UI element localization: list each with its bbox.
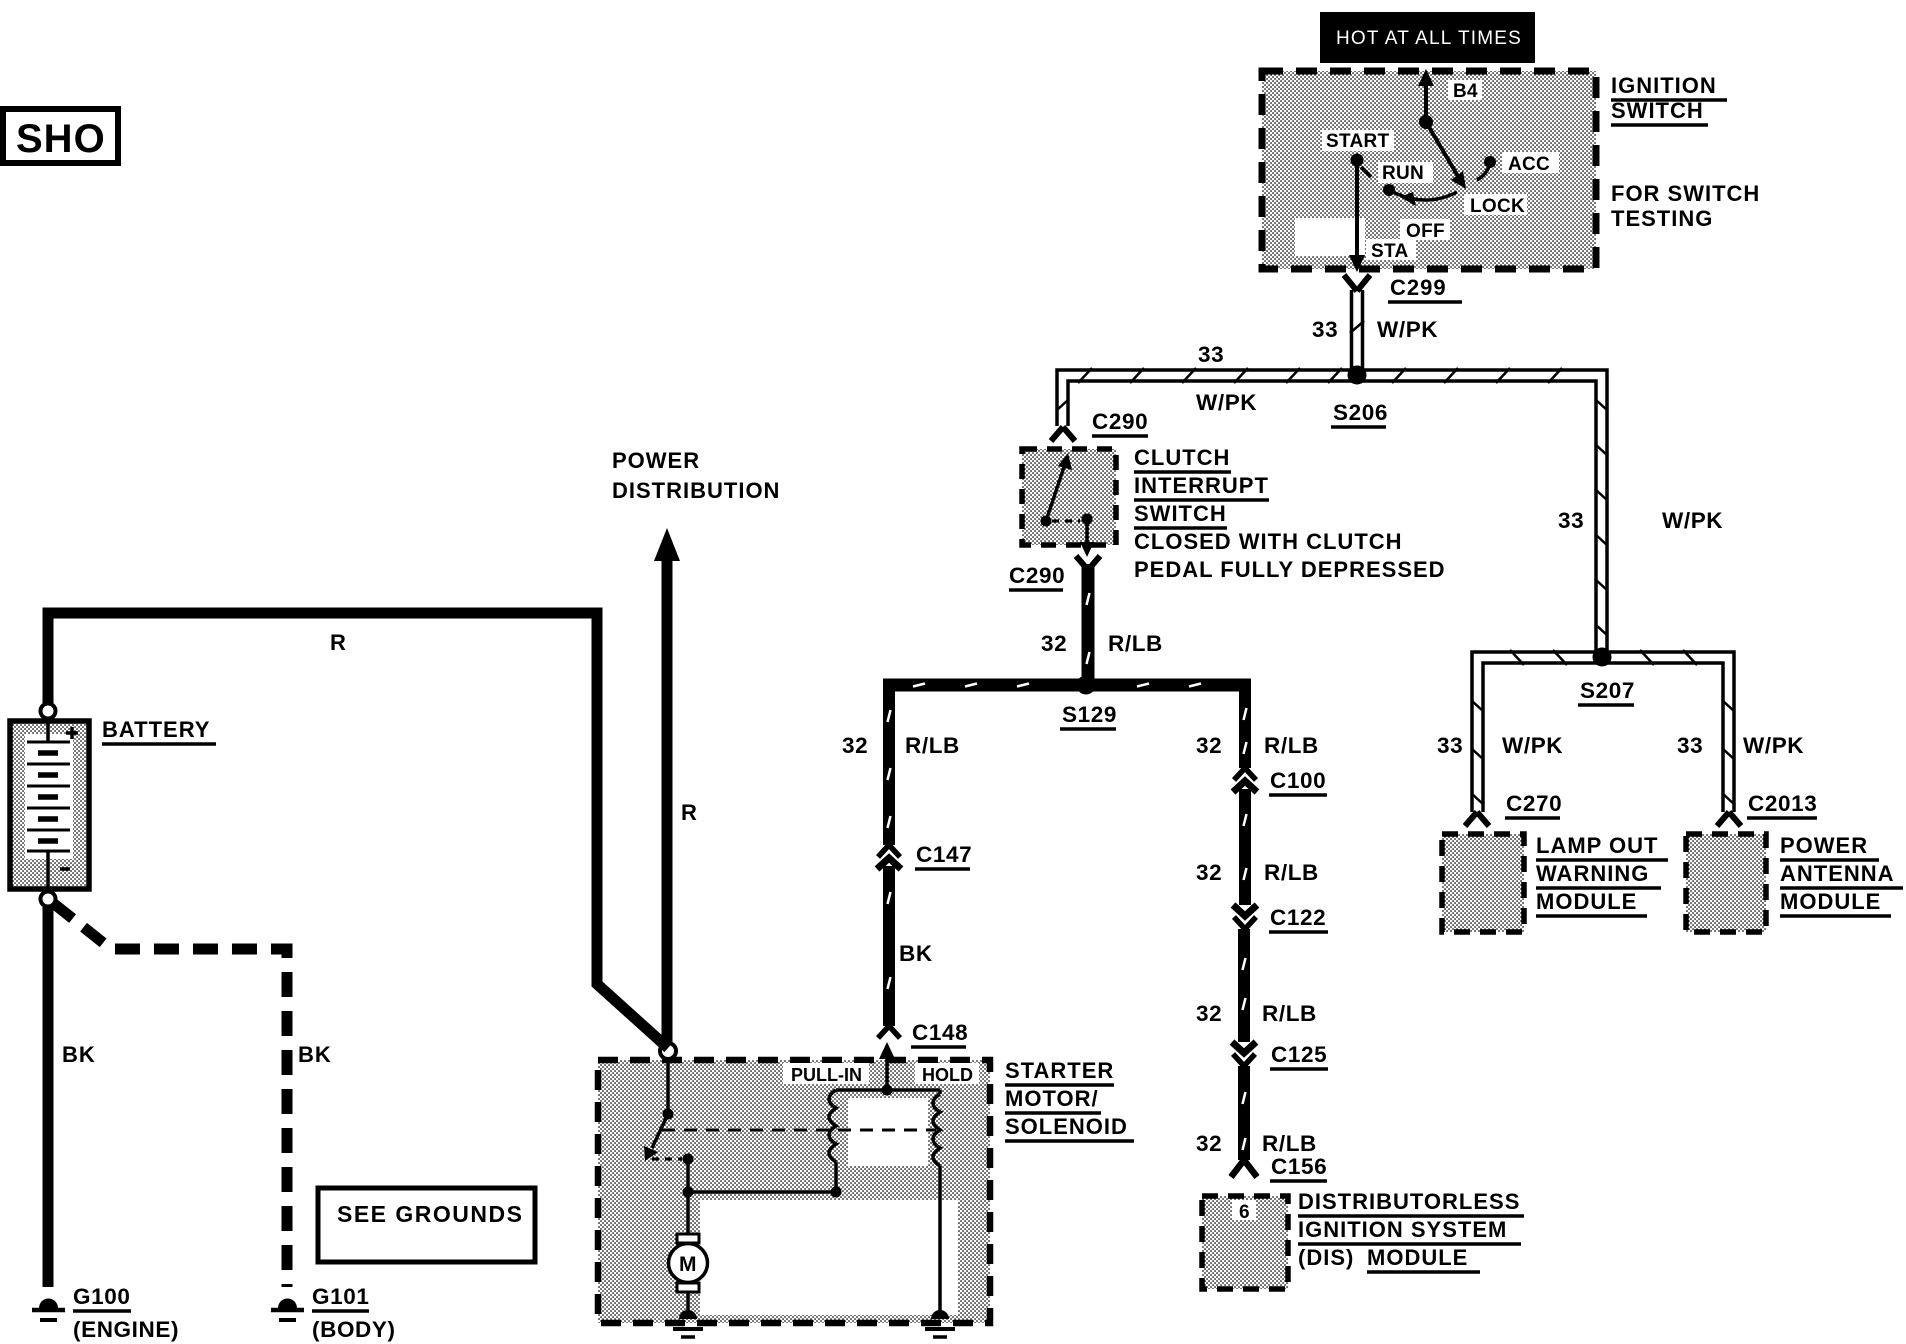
svg-text:HOLD: HOLD bbox=[922, 1065, 973, 1085]
svg-text:BK: BK bbox=[298, 1042, 332, 1067]
svg-text:R/LB: R/LB bbox=[905, 733, 960, 758]
svg-text:33: 33 bbox=[1312, 317, 1338, 342]
svg-text:R: R bbox=[330, 630, 347, 655]
svg-text:(DIS): (DIS) bbox=[1298, 1245, 1354, 1270]
wire 33 W/PK from C299 to S206 bbox=[1312, 290, 1438, 371]
svg-text:33: 33 bbox=[1198, 342, 1224, 367]
svg-text:PEDAL FULLY DEPRESSED: PEDAL FULLY DEPRESSED bbox=[1134, 557, 1446, 582]
svg-text:ACC: ACC bbox=[1508, 154, 1550, 175]
battery bbox=[10, 704, 89, 907]
svg-text:DISTRIBUTORLESS: DISTRIBUTORLESS bbox=[1298, 1189, 1520, 1214]
svg-text:RUN: RUN bbox=[1382, 163, 1424, 184]
svg-text:S206: S206 bbox=[1333, 400, 1388, 425]
starter solenoid battery terminal bbox=[660, 1043, 676, 1059]
hold winding ground bbox=[925, 1310, 955, 1337]
svg-text:SHO: SHO bbox=[16, 117, 106, 161]
svg-text:PULL-IN: PULL-IN bbox=[791, 1065, 862, 1085]
connector C147 bbox=[877, 842, 972, 869]
wire 32 R/LB S129 left branch down to C147 bbox=[842, 679, 960, 845]
svg-text:INTERRUPT: INTERRUPT bbox=[1134, 473, 1269, 498]
wire 33 W/PK S206 to S207 vertical hash marks bbox=[1558, 399, 1723, 636]
svg-text:TESTING: TESTING bbox=[1611, 206, 1713, 231]
connector C100 bbox=[1233, 768, 1327, 795]
svg-text:POWER: POWER bbox=[1780, 833, 1868, 858]
svg-text:IGNITION SYSTEM: IGNITION SYSTEM bbox=[1298, 1217, 1507, 1242]
wire 33 W/PK S206 horizontal run bbox=[1056, 342, 1607, 658]
solenoid feed arrow to C148 bbox=[879, 1042, 895, 1090]
svg-text:R/LB: R/LB bbox=[1264, 860, 1319, 885]
svg-text:C270: C270 bbox=[1506, 791, 1562, 816]
svg-text:W/PK: W/PK bbox=[1377, 317, 1438, 342]
connector C290 (ignition side) bbox=[1051, 409, 1148, 441]
splice S207 bbox=[1437, 648, 1804, 813]
power feed label HOT AT ALL TIMES bbox=[1320, 12, 1535, 63]
svg-text:C299: C299 bbox=[1390, 275, 1447, 300]
ignition switch terminal B4 arrow bbox=[1418, 69, 1478, 129]
svg-text:MODULE: MODULE bbox=[1780, 889, 1881, 914]
svg-text:G101: G101 bbox=[312, 1284, 369, 1309]
svg-text:C2013: C2013 bbox=[1748, 791, 1817, 816]
svg-text:CLOSED WITH CLUTCH: CLOSED WITH CLUTCH bbox=[1134, 529, 1403, 554]
ignition switch blade B4 to LOCK bbox=[1426, 122, 1466, 189]
svg-text:MODULE: MODULE bbox=[1536, 889, 1637, 914]
connector C299 bbox=[1344, 275, 1462, 302]
svg-text:DISTRIBUTION: DISTRIBUTION bbox=[612, 478, 780, 503]
ignition switch STA output arrow bbox=[1349, 160, 1409, 272]
svg-text:M: M bbox=[679, 1253, 697, 1276]
svg-text:32: 32 bbox=[1196, 1001, 1222, 1026]
wire 32 R/LB C125 to C156 bbox=[1196, 1066, 1317, 1160]
svg-text:(ENGINE): (ENGINE) bbox=[73, 1317, 179, 1342]
label POWER DISTRIBUTION bbox=[612, 448, 780, 503]
ground G100 bbox=[32, 1284, 179, 1342]
wire 32 R/LB C100 to C122 bbox=[1196, 789, 1319, 905]
svg-text:IGNITION: IGNITION bbox=[1611, 73, 1717, 98]
wire 32 R/LB clutch switch to S129 bbox=[1041, 564, 1163, 684]
label CLUTCH INTERRUPT SWITCH bbox=[1134, 445, 1446, 582]
svg-text:(BODY): (BODY) bbox=[312, 1317, 396, 1342]
ground G101 bbox=[271, 1284, 396, 1342]
svg-text:C100: C100 bbox=[1270, 768, 1326, 793]
ignition switch contact RUN bbox=[1382, 163, 1424, 196]
svg-text:SOLENOID: SOLENOID bbox=[1005, 1114, 1128, 1139]
label DISTRIBUTORLESS IGNITION SYSTEM (DIS) MODULE bbox=[1298, 1189, 1524, 1272]
svg-text:B4: B4 bbox=[1453, 81, 1478, 102]
note box SEE GROUNDS bbox=[318, 1188, 535, 1262]
svg-text:SWITCH: SWITCH bbox=[1611, 98, 1704, 123]
label POWER ANTENNA MODULE bbox=[1780, 833, 1903, 916]
svg-text:C125: C125 bbox=[1271, 1042, 1327, 1067]
connector C2013 bbox=[1717, 791, 1817, 826]
svg-text:MOTOR/: MOTOR/ bbox=[1005, 1086, 1099, 1111]
wire R to power distribution arrow bbox=[654, 528, 698, 1043]
connector C148 bbox=[878, 1020, 968, 1047]
label BATTERY bbox=[102, 717, 216, 744]
svg-text:ANTENNA: ANTENNA bbox=[1780, 861, 1895, 886]
svg-text:32: 32 bbox=[1196, 1131, 1222, 1156]
power antenna module box bbox=[1686, 834, 1766, 932]
wire to starter motor bbox=[683, 1159, 694, 1236]
clutch interrupt switch box bbox=[1022, 449, 1116, 545]
svg-text:S207: S207 bbox=[1580, 678, 1635, 703]
label FOR SWITCH TESTING bbox=[1611, 181, 1760, 231]
svg-text:FOR SWITCH: FOR SWITCH bbox=[1611, 181, 1760, 206]
wire 32 R/LB S129 right branch to C100 bbox=[1196, 679, 1319, 768]
svg-text:33: 33 bbox=[1677, 733, 1703, 758]
svg-text:BK: BK bbox=[62, 1042, 96, 1067]
svg-text:BK: BK bbox=[899, 941, 933, 966]
svg-text:32: 32 bbox=[842, 733, 868, 758]
svg-text:POWER: POWER bbox=[612, 448, 700, 473]
svg-text:BATTERY: BATTERY bbox=[102, 717, 210, 742]
svg-text:R/LB: R/LB bbox=[1262, 1001, 1317, 1026]
ignition switch box bbox=[1262, 71, 1596, 269]
svg-text:32: 32 bbox=[1196, 860, 1222, 885]
svg-text:32: 32 bbox=[1196, 733, 1222, 758]
connector C290 (starter side) bbox=[1009, 556, 1100, 590]
svg-text:SEE GROUNDS: SEE GROUNDS bbox=[337, 1201, 523, 1227]
svg-text:C156: C156 bbox=[1271, 1154, 1327, 1179]
label STARTER MOTOR/SOLENOID bbox=[1005, 1058, 1134, 1141]
starter solenoid contact arm bbox=[644, 1059, 694, 1165]
svg-text:CLUTCH: CLUTCH bbox=[1134, 445, 1230, 470]
svg-text:STA: STA bbox=[1371, 241, 1409, 262]
svg-text:R: R bbox=[681, 800, 698, 825]
label IGNITION SWITCH bbox=[1611, 73, 1727, 125]
svg-text:LAMP OUT: LAMP OUT bbox=[1536, 833, 1658, 858]
svg-text:C290: C290 bbox=[1092, 409, 1148, 434]
svg-text:STARTER: STARTER bbox=[1005, 1058, 1114, 1083]
clutch interrupt switch blade bbox=[1041, 453, 1095, 557]
svg-text:G100: G100 bbox=[73, 1284, 130, 1309]
starter motor M bbox=[669, 1234, 708, 1312]
svg-text:R/LB: R/LB bbox=[1108, 631, 1163, 656]
svg-text:R/LB: R/LB bbox=[1264, 733, 1319, 758]
distributorless ignition system (DIS) module box bbox=[1202, 1196, 1288, 1289]
svg-text:C122: C122 bbox=[1270, 905, 1326, 930]
ignition switch contact ACC bbox=[1477, 154, 1550, 180]
svg-text:SWITCH: SWITCH bbox=[1134, 501, 1227, 526]
connector C122 bbox=[1233, 905, 1328, 932]
hold winding bbox=[836, 1065, 973, 1312]
splice S129 bbox=[1060, 676, 1117, 730]
ignition switch contact OFF with detent arc bbox=[1389, 190, 1457, 242]
splice S206 bbox=[1331, 366, 1388, 428]
starter motor/solenoid box bbox=[598, 1060, 990, 1323]
svg-text:START: START bbox=[1326, 131, 1390, 152]
wire BK battery negative to G101 (dashed) bbox=[53, 903, 332, 1287]
svg-text:32: 32 bbox=[1041, 631, 1067, 656]
wire BK battery negative to G100 bbox=[48, 905, 96, 1287]
ignition switch contact START bbox=[1326, 131, 1390, 177]
svg-text:HOT AT ALL TIMES: HOT AT ALL TIMES bbox=[1336, 28, 1522, 49]
svg-text:W/PK: W/PK bbox=[1662, 508, 1723, 533]
starter solenoid mechanical link (dashed) bbox=[662, 1129, 936, 1132]
connector C125 bbox=[1232, 1042, 1328, 1069]
pull-in winding bbox=[688, 1065, 862, 1198]
svg-text:C148: C148 bbox=[912, 1020, 968, 1045]
label LAMP OUT WARNING MODULE bbox=[1536, 833, 1668, 916]
svg-text:WARNING: WARNING bbox=[1536, 861, 1649, 886]
svg-text:33: 33 bbox=[1558, 508, 1584, 533]
connector C156 bbox=[1231, 1154, 1327, 1181]
wire 32 R/LB C122 to C125 bbox=[1196, 929, 1317, 1042]
svg-text:MODULE: MODULE bbox=[1367, 1245, 1468, 1270]
svg-text:S129: S129 bbox=[1062, 702, 1117, 727]
connector C270 bbox=[1465, 791, 1562, 826]
svg-text:C290: C290 bbox=[1009, 563, 1065, 588]
svg-text:LOCK: LOCK bbox=[1470, 196, 1525, 217]
svg-text:R/LB: R/LB bbox=[1262, 1131, 1317, 1156]
svg-text:6: 6 bbox=[1239, 1202, 1250, 1223]
wire R battery positive to starter solenoid bbox=[48, 613, 668, 1048]
wire BK C147 to C148 bbox=[888, 866, 933, 1026]
frame label SHO bbox=[3, 109, 118, 163]
svg-text:W/PK: W/PK bbox=[1502, 733, 1563, 758]
svg-text:C147: C147 bbox=[916, 842, 972, 867]
starter motor ground bbox=[673, 1310, 703, 1337]
svg-text:OFF: OFF bbox=[1406, 221, 1445, 242]
svg-text:33: 33 bbox=[1437, 733, 1463, 758]
svg-text:W/PK: W/PK bbox=[1743, 733, 1804, 758]
svg-text:W/PK: W/PK bbox=[1196, 390, 1257, 415]
lamp out warning module box bbox=[1442, 834, 1524, 932]
wire S129 horizontal run bbox=[883, 684, 1251, 687]
